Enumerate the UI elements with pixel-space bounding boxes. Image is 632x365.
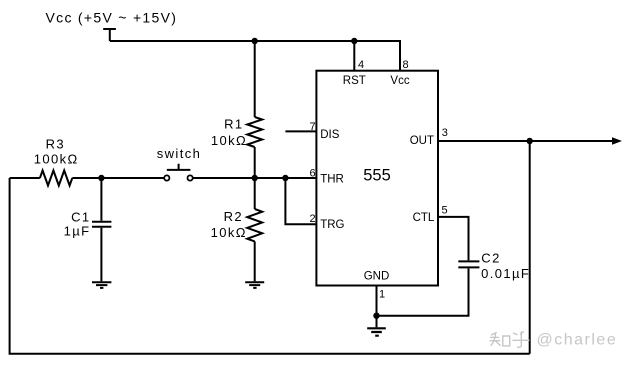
junction dot top rail / pin 4 <box>351 38 357 44</box>
svg-text:R3: R3 <box>46 136 65 151</box>
svg-text:THR: THR <box>320 174 344 186</box>
power Vcc terminal <box>103 29 116 41</box>
watermark zhihu glyphs <box>490 332 529 348</box>
capacitor C1 bottom lead <box>100 228 102 282</box>
wire CTL (pin 5) to C2 <box>438 217 469 261</box>
svg-text:2: 2 <box>310 213 316 225</box>
switch S1 <box>164 164 193 181</box>
svg-text:switch: switch <box>157 146 202 161</box>
ground below C1 <box>92 282 111 288</box>
svg-text:4: 4 <box>358 59 364 71</box>
junction dot top rail / R1 <box>252 38 258 44</box>
resistor R2 top lead <box>254 178 256 209</box>
svg-text:Vcc (+5V ~ +15V): Vcc (+5V ~ +15V) <box>46 10 178 26</box>
svg-text:R2: R2 <box>224 209 243 224</box>
svg-text:5: 5 <box>442 205 448 217</box>
wire left lead of R3 <box>10 177 40 179</box>
svg-text:100kΩ: 100kΩ <box>34 151 79 166</box>
svg-text:555: 555 <box>363 167 391 185</box>
svg-text:10kΩ: 10kΩ <box>211 133 247 148</box>
junction dot main line / C1 <box>98 175 104 181</box>
capacitor C2 plates <box>458 261 479 267</box>
arrowhead of OUT <box>612 137 622 144</box>
ground main (pin 1) <box>367 328 386 335</box>
svg-text:C2: C2 <box>481 251 500 266</box>
capacitor C1 plates <box>92 222 111 227</box>
svg-text:@charlee: @charlee <box>537 332 618 349</box>
svg-text:0.01µF: 0.01µF <box>481 266 530 281</box>
svg-text:3: 3 <box>442 127 448 139</box>
junction dot main line / R1 R2 <box>252 175 258 181</box>
wire pin 4 branch <box>353 41 355 71</box>
svg-text:R1: R1 <box>224 117 243 132</box>
wire DIS stub (pin 7) <box>285 130 316 132</box>
svg-text:CTL: CTL <box>413 212 435 224</box>
wire R1 bottom lead <box>254 147 256 178</box>
junction dot main line / TRG branch <box>282 175 288 181</box>
svg-text:DIS: DIS <box>320 129 340 141</box>
wire OUT feedback down <box>529 141 531 354</box>
wire C2 bottom to GND node <box>377 268 469 315</box>
wire GND pin 1 <box>376 286 378 328</box>
wire R1 top lead <box>254 41 256 117</box>
junction dot OUT / feedback <box>527 138 533 144</box>
resistor R2 <box>247 209 262 241</box>
svg-text:7: 7 <box>310 121 316 133</box>
IC U1 555 body <box>316 71 438 286</box>
wire TRG branch <box>285 178 316 224</box>
svg-text:10kΩ: 10kΩ <box>211 225 247 240</box>
wire left rail / bottom rail <box>10 178 530 354</box>
svg-text:1: 1 <box>379 288 385 300</box>
svg-text:GND: GND <box>364 271 390 283</box>
resistor R2 bottom lead <box>254 241 256 281</box>
svg-text:6: 6 <box>310 167 316 179</box>
svg-text:Vcc: Vcc <box>390 75 409 87</box>
capacitor C1 top lead <box>100 178 102 221</box>
svg-text:8: 8 <box>403 59 409 71</box>
ground below R2 <box>245 282 264 288</box>
svg-text:1µF: 1µF <box>64 223 91 238</box>
wire R3 to switch <box>72 177 164 179</box>
resistor R1 <box>247 117 262 147</box>
wire switch to IC (THR pin 6) <box>193 177 317 179</box>
wire OUT (pin 3) <box>438 140 614 142</box>
junction dot GND node <box>373 313 379 319</box>
resistor R3 <box>40 171 72 186</box>
svg-text:RST: RST <box>343 75 366 87</box>
wire top rail to pin 8 <box>110 41 400 71</box>
svg-text:OUT: OUT <box>410 135 434 147</box>
svg-text:TRG: TRG <box>320 219 344 231</box>
